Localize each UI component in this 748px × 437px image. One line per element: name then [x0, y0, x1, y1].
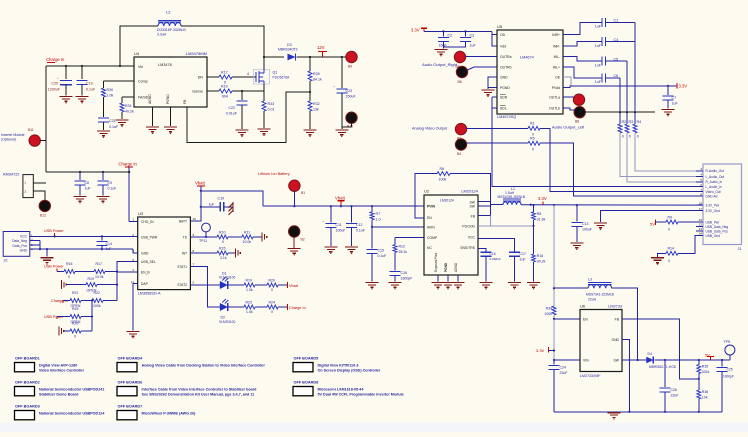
svg-text:1uF: 1uF: [595, 25, 602, 29]
svg-text:Vbatt: Vbatt: [195, 181, 206, 186]
resistor R36: [697, 390, 701, 399]
wire EN_B U3: [117, 271, 138, 273]
svg-text:R19: R19: [88, 277, 94, 281]
svg-text:1uF: 1uF: [672, 102, 679, 106]
pin 6 L_Audio_In J1: [696, 186, 703, 188]
svg-text:OUTRb: OUTRb: [500, 66, 512, 70]
capacitor C6: [601, 73, 603, 82]
svg-text:Audio Output_Right: Audio Output_Right: [422, 62, 458, 67]
svg-text:100k: 100k: [544, 312, 552, 316]
wire R4 to J1 pin3: [635, 133, 703, 171]
capacitor C11: [330, 206, 332, 222]
svg-text:3.3V: 3.3V: [411, 28, 420, 33]
svg-text:LM3658SD-A: LM3658SD-A: [138, 292, 161, 296]
svg-text:USB Power: USB Power: [44, 264, 64, 268]
wire PVdd 3.3V rail: [563, 86, 677, 88]
svg-text:0: 0: [68, 275, 70, 279]
svg-text:0.1uF: 0.1uF: [109, 125, 119, 129]
ground C9: [97, 196, 110, 198]
svg-text:LM2733: LM2733: [608, 305, 622, 309]
svg-text:PGND: PGND: [444, 262, 448, 272]
wire C5 to bus: [605, 60, 627, 62]
svg-text:4: 4: [132, 268, 134, 272]
resistor R2: [618, 124, 622, 133]
svg-text:90.2k: 90.2k: [537, 260, 546, 264]
ground DAP: [127, 331, 140, 333]
svg-text:0: 0: [629, 135, 631, 139]
svg-text:10k: 10k: [702, 396, 708, 400]
svg-text:R16: R16: [537, 254, 543, 258]
inductor L2: [158, 23, 181, 26]
svg-text:1uF: 1uF: [470, 44, 477, 48]
svg-text:R34: R34: [546, 307, 552, 311]
svg-text:INL-: INL-: [554, 55, 560, 59]
pin 21 USB_Data_Pos J1: [696, 230, 703, 232]
wire charge net to C8 C9: [46, 171, 129, 173]
wire C1 to bus: [605, 21, 635, 23]
capacitor C26: [664, 360, 666, 387]
wire U2 bottom stubs: [437, 275, 439, 282]
svg-text:LM2733XMF: LM2733XMF: [580, 374, 601, 378]
wire 3.3V_Gnd from J1 pin17: [601, 211, 704, 222]
capacitor C18: [390, 271, 401, 273]
svg-text:3.3V_Pwr: 3.3V_Pwr: [706, 203, 721, 207]
pin 22 USB_Data_Neg J1: [696, 226, 703, 228]
svg-text:LM4674: LM4674: [520, 56, 534, 60]
wire GND PGND U5 to ground: [488, 77, 497, 89]
wire SDR SDL to J1 pin6: [492, 96, 497, 98]
wire B4 to R5: [466, 142, 528, 144]
wire OUTLb to B8: [563, 108, 575, 110]
svg-text:DR: DR: [198, 76, 204, 80]
svg-text:B2: B2: [301, 238, 305, 242]
resistor R22: [92, 299, 103, 303]
svg-text:3.3V: 3.3V: [538, 196, 547, 201]
svg-text:1uF: 1uF: [595, 64, 602, 68]
wire Comp net: [104, 80, 135, 82]
resistor R1: [528, 126, 540, 130]
wire OUTLa to B7: [563, 96, 574, 98]
svg-text:13k: 13k: [313, 108, 319, 112]
svg-text:1uF: 1uF: [85, 187, 91, 191]
capacitor C8: [79, 172, 81, 180]
jack B6: [456, 66, 467, 77]
resistor R25: [70, 315, 81, 319]
ground INT side: [235, 248, 237, 257]
connector J1 box: [703, 164, 742, 245]
wire EN row: [554, 318, 580, 320]
diode D4: [646, 357, 653, 364]
svg-text:1: 1: [25, 181, 27, 185]
ground PGND U4: [164, 126, 177, 128]
resistor R15: [217, 251, 228, 255]
jack B5: [454, 51, 465, 62]
svg-text:12V: 12V: [317, 45, 325, 50]
svg-text:U5: U5: [497, 24, 503, 29]
svg-text:B6: B6: [458, 80, 462, 84]
svg-text:1000pF: 1000pF: [723, 375, 734, 379]
svg-text:DAP: DAP: [141, 282, 149, 286]
svg-text:Lithium Ion Battery: Lithium Ion Battery: [258, 172, 290, 176]
wire R28 to R32: [309, 81, 311, 101]
svg-text:LM3478: LM3478: [158, 63, 172, 67]
resistor R23: [244, 305, 255, 309]
ground C21: [97, 130, 110, 132]
wire B11 to charge rail: [40, 140, 46, 142]
wire R7 to AVIN: [371, 220, 373, 249]
ground R33: [258, 128, 271, 130]
svg-text:40.2k: 40.2k: [125, 110, 134, 114]
svg-text:VCC: VCC: [468, 236, 476, 240]
wire 3.3V rail to J1 pin18: [521, 204, 703, 206]
svg-text:L3: L3: [588, 278, 592, 282]
wire USB_Gnd to R14: [678, 236, 696, 254]
svg-text:C25: C25: [727, 368, 733, 372]
svg-text:31.6k: 31.6k: [537, 218, 546, 222]
svg-text:SNS/TRK: SNS/TRK: [460, 246, 475, 250]
wire J2 gnd to U3: [30, 248, 133, 250]
svg-text:SW: SW: [614, 359, 620, 363]
svg-text:D4: D4: [648, 352, 653, 356]
svg-text:R20: R20: [269, 279, 275, 283]
svg-text:OFF BOARD1: OFF BOARD1: [15, 357, 40, 361]
svg-text:1.0: 1.0: [376, 218, 381, 222]
wire R26 to vertical: [81, 330, 92, 332]
svg-text:21: 21: [699, 227, 703, 231]
svg-text:84.1k: 84.1k: [313, 78, 322, 82]
wire COMP to R12: [395, 237, 424, 239]
ground U5: [482, 89, 495, 91]
svg-text:(Optional): (Optional): [1, 138, 16, 142]
ground J2: [46, 249, 48, 257]
page bottom margin band: [0, 423, 748, 433]
svg-text:USB_Pwr: USB_Pwr: [706, 220, 721, 224]
svg-text:+: +: [57, 76, 60, 81]
wire Q1 source: [263, 84, 265, 91]
svg-text:C10: C10: [218, 197, 225, 201]
svg-text:R7: R7: [376, 212, 381, 216]
svg-text:150uF: 150uF: [346, 95, 357, 99]
capacitor C13: [576, 205, 578, 222]
test point TP11: [202, 223, 211, 232]
resistor R30: [102, 88, 106, 97]
svg-text:OUTLa: OUTLa: [549, 95, 560, 99]
svg-text:STAT1: STAT1: [177, 265, 187, 269]
svg-text:C19: C19: [86, 82, 93, 86]
svg-text:Microsemi LXM1618-05-44: Microsemi LXM1618-05-44: [318, 387, 365, 391]
svg-text:3300pF: 3300pF: [401, 277, 413, 281]
ground C18: [389, 282, 402, 284]
svg-text:5: 5: [193, 281, 195, 285]
svg-text:17: 17: [699, 207, 703, 211]
svg-text:100k: 100k: [93, 304, 101, 308]
svg-text:D2: D2: [221, 316, 226, 320]
svg-text:R28: R28: [313, 72, 320, 76]
wire R17 to Q1 gate: [232, 76, 256, 78]
svg-text:1200uF: 1200uF: [48, 88, 61, 92]
ground TS side: [261, 232, 263, 241]
svg-text:MBRS340T3: MBRS340T3: [278, 48, 298, 52]
wire FB net U6: [622, 319, 699, 379]
wire B3 to R1: [466, 127, 528, 129]
svg-text:R8: R8: [537, 212, 542, 216]
capacitor C14: [101, 236, 103, 240]
svg-text:Charge In: Charge In: [46, 57, 65, 62]
svg-text:0: 0: [222, 240, 224, 244]
boost U6 LM2733 box: [580, 310, 622, 372]
svg-text:GND: GND: [611, 338, 619, 342]
pin 24 USB_Gnd J1: [696, 235, 703, 237]
wire R12 to C18: [394, 253, 396, 271]
svg-text:100k: 100k: [439, 178, 447, 182]
svg-text:National Semiconductor USBPO: National Semiconductor USBPOD124: [39, 411, 105, 415]
svg-text:U3: U3: [138, 211, 144, 216]
charger U3 LM3658SD-A box: [138, 217, 191, 290]
wire FB gray to divider: [491, 216, 534, 226]
resistor R34: [552, 306, 556, 315]
jack B10: [346, 112, 357, 123]
svg-text:C9: C9: [108, 181, 113, 185]
svg-text:AGND: AGND: [454, 262, 458, 272]
svg-text:0: 0: [271, 288, 273, 292]
svg-text:U2: U2: [424, 189, 430, 194]
svg-text:1uF: 1uF: [106, 247, 112, 251]
capacitor C15: [367, 249, 378, 251]
svg-text:28.1k: 28.1k: [399, 250, 408, 254]
svg-text:C20: C20: [51, 82, 58, 86]
svg-text:C8: C8: [85, 181, 90, 185]
jack B11: [29, 135, 40, 146]
wire EN to R6: [415, 174, 437, 218]
svg-text:24: 24: [699, 232, 703, 236]
resistor R17 usb: [94, 270, 105, 274]
svg-text:MSS7341-223MLB: MSS7341-223MLB: [586, 293, 615, 297]
resistor R9: [666, 220, 678, 224]
ground C15: [366, 282, 379, 284]
svg-text:USB_PWR: USB_PWR: [141, 235, 158, 239]
wire L3 to SW: [612, 288, 638, 360]
svg-text:SDL: SDL: [500, 106, 507, 110]
svg-text:R9: R9: [668, 215, 673, 219]
svg-text:R25: R25: [72, 307, 78, 311]
pin 17 3.3V_Gnd J1: [696, 210, 703, 212]
svg-text:3.3V: 3.3V: [679, 83, 688, 88]
svg-text:22: 22: [699, 223, 703, 227]
svg-text:R24: R24: [269, 301, 275, 305]
svg-text:0: 0: [622, 135, 624, 139]
wire Vbatt rail U2: [263, 205, 424, 207]
wire J2 data stubs: [30, 239, 40, 241]
wire sense to source: [232, 90, 264, 92]
connector J2 USB: [3, 232, 30, 257]
svg-text:R35: R35: [702, 365, 708, 369]
svg-text:FB: FB: [183, 99, 187, 104]
wire INR- to C4: [563, 42, 602, 47]
svg-text:PGND: PGND: [166, 94, 170, 104]
wire RASM722 to B12: [33, 191, 45, 201]
inductor L1: [503, 202, 521, 205]
svg-text:B12: B12: [40, 214, 46, 218]
capacitor C21: [98, 117, 109, 119]
svg-text:Charge In: Charge In: [289, 306, 306, 310]
svg-text:FB: FB: [615, 317, 620, 321]
svg-text:0: 0: [74, 334, 76, 338]
ground R31: [116, 119, 129, 121]
svg-text:Digital View AVP-1280: Digital View AVP-1280: [39, 363, 77, 367]
svg-text:0: 0: [668, 259, 670, 263]
svg-text:PVdd: PVdd: [552, 86, 560, 90]
wire R25 to vertical: [81, 316, 92, 318]
svg-text:Stabilizer Demo Board: Stabilizer Demo Board: [39, 393, 79, 397]
svg-text:OUTLb: OUTLb: [549, 106, 560, 110]
svg-text:301k: 301k: [702, 370, 710, 374]
wire USB power to U3: [30, 235, 138, 237]
jack B2: [289, 226, 300, 237]
svg-text:0: 0: [637, 135, 639, 139]
svg-text:MicroWheel P-3WME (AWG 26): MicroWheel P-3WME (AWG 26): [142, 411, 197, 415]
resistor R13 divider: [532, 254, 536, 262]
svg-text:Analog Video Output: Analog Video Output: [412, 127, 448, 131]
svg-text:R16: R16: [66, 262, 72, 266]
svg-text:B9: B9: [348, 65, 352, 69]
ground C22: [236, 129, 249, 131]
wire B6 to OUTRb: [468, 67, 498, 70]
svg-text:INR-: INR-: [553, 45, 560, 49]
wire R19 to sel vertical: [97, 284, 117, 286]
svg-text:R23: R23: [246, 301, 252, 305]
svg-text:Digital View KIT50110-3: Digital View KIT50110-3: [318, 363, 359, 367]
inductor L3: [554, 287, 588, 289]
wire 3.3V long vertical: [553, 205, 555, 306]
svg-text:Interface Cable from Video Int: Interface Cable from Video Interface Con…: [142, 387, 258, 391]
ground C10 earth: [224, 206, 233, 208]
ground C20: [60, 96, 73, 98]
svg-text:See SNS20262 Demonstration Kit: See SNS20262 Demonstration Kit User Manu…: [142, 393, 255, 397]
svg-text:PGND: PGND: [500, 86, 510, 90]
resistor R14: [666, 251, 678, 255]
resistor R20: [267, 283, 278, 287]
svg-text:GND-AV: GND-AV: [706, 195, 719, 199]
resistor R5: [528, 141, 540, 145]
resistor R7: [371, 206, 373, 212]
jack B7: [573, 94, 584, 105]
wire VCC to C17: [478, 239, 515, 252]
svg-text:C17: C17: [520, 252, 526, 256]
ground bottom rail: [608, 412, 621, 414]
wire B8 audio bus: [585, 111, 655, 113]
amplifier U5 LM4674 box: [497, 30, 563, 114]
wire L2 to Q1 drain: [181, 26, 264, 69]
ground C19: [76, 96, 89, 98]
svg-text:Vbatt: Vbatt: [335, 195, 346, 200]
svg-text:B11: B11: [28, 128, 34, 132]
svg-text:RASM722: RASM722: [3, 173, 19, 177]
wire BATT net: [190, 186, 200, 221]
capacitor C17: [509, 251, 520, 253]
svg-text:C23: C23: [346, 89, 353, 93]
svg-text:C15: C15: [378, 249, 384, 253]
svg-text:USB_Gnd: USB_Gnd: [706, 234, 721, 238]
capacitor C7: [667, 86, 669, 95]
wire R30 to C21: [103, 97, 105, 117]
svg-text:National Semiconductor USBPO: National Semiconductor USBPOD241: [39, 387, 104, 391]
wire R22 to EN vertical: [103, 300, 117, 302]
svg-text:R_Audio_In: R_Audio_In: [706, 180, 723, 184]
wire SW to L1: [478, 201, 491, 203]
svg-text:1uF: 1uF: [595, 80, 602, 84]
svg-text:C3: C3: [470, 34, 475, 38]
wire R17 to USB_SEL: [105, 262, 138, 272]
wire D4 to 5V: [654, 359, 730, 361]
svg-text:USB Power: USB Power: [44, 229, 64, 233]
svg-text:R17: R17: [96, 262, 102, 266]
wire B5 to OUTRa: [466, 55, 498, 57]
resistor R19: [219, 89, 232, 93]
svg-text:3.1k: 3.1k: [220, 256, 227, 260]
resistor R19 led: [244, 283, 255, 287]
wire OE stub: [563, 77, 571, 86]
capacitor C22: [241, 91, 243, 100]
svg-text:5V Dual 4W CCFL Programmable I: 5V Dual 4W CCFL Programmable Inverter Mo…: [318, 393, 404, 397]
svg-text:C13: C13: [582, 222, 588, 226]
svg-text:100uF: 100uF: [582, 228, 592, 232]
jack B8: [574, 107, 585, 118]
svg-text:OD: OD: [500, 33, 506, 37]
svg-text:VCC: VCC: [20, 234, 28, 238]
wire VIN row: [554, 359, 580, 361]
wire AGND pin stub: [152, 107, 154, 126]
ground C12: [345, 246, 358, 248]
wire DAP to ground: [133, 284, 138, 331]
capacitor C19: [81, 66, 83, 79]
svg-text:L2: L2: [166, 10, 171, 15]
svg-text:J2: J2: [4, 259, 8, 263]
svg-text:0.1uF: 0.1uF: [378, 254, 387, 258]
wire SW row: [622, 359, 646, 361]
ground C16: [480, 282, 493, 284]
pin 18 3.3V_Pwr J1: [696, 204, 703, 206]
resistor R11: [242, 235, 253, 239]
svg-text:22uF: 22uF: [671, 394, 679, 398]
svg-text:3.3V_Gnd: 3.3V_Gnd: [706, 209, 721, 213]
svg-text:5V: 5V: [650, 221, 655, 226]
svg-text:C14: C14: [106, 242, 112, 246]
svg-text:USB_Data_Pos: USB_Data_Pos: [706, 229, 729, 233]
resistor R6: [437, 172, 450, 176]
wire INL- to C5: [563, 56, 602, 61]
svg-text:R19: R19: [246, 279, 252, 283]
svg-text:100uF: 100uF: [336, 229, 346, 233]
capacitor C12: [351, 206, 353, 222]
svg-text:Q1: Q1: [273, 71, 278, 75]
resistor R32: [308, 101, 312, 111]
wire R6 to FB: [450, 174, 491, 216]
svg-text:R2: R2: [622, 120, 627, 124]
resistor R12: [393, 245, 397, 253]
wire Charge In rail: [46, 65, 134, 67]
wire STAT2 net: [190, 284, 219, 286]
svg-text:VLMK3100: VLMK3100: [219, 276, 235, 280]
svg-text:0.1uF: 0.1uF: [86, 88, 96, 92]
svg-text:B4: B4: [457, 152, 461, 156]
capacitor C16: [481, 251, 492, 253]
svg-text:FB: FB: [471, 214, 476, 218]
svg-text:R15: R15: [219, 246, 225, 250]
svg-text:AVIN: AVIN: [427, 225, 435, 229]
svg-text:10.0k: 10.0k: [95, 275, 104, 279]
jack B9: [346, 51, 357, 62]
connector RASM722: [23, 175, 33, 198]
